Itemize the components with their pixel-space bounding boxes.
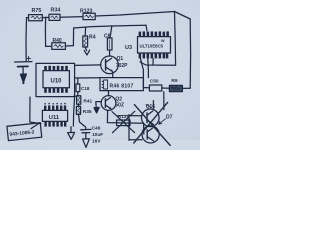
svg-text:R4: R4 — [89, 35, 96, 41]
svg-text:R46 8107: R46 8107 — [110, 83, 134, 89]
resistor R120 crossed out — [112, 111, 135, 133]
capacitor C18 — [76, 78, 90, 92]
capacitor C46 — [81, 126, 103, 145]
wire R41-R35 — [78, 104, 80, 106]
svg-text:R40: R40 — [53, 38, 62, 44]
resistor R41 — [77, 96, 93, 105]
wire corner down right of U3 (inner vertical) — [175, 12, 176, 66]
ground arrow under U11 — [70, 127, 72, 133]
wire riser up to second rail — [72, 28, 74, 46]
wire under U3 horizontal — [140, 62, 176, 65]
wire Q16 collector stub — [152, 101, 154, 109]
diode arrow at Q2 base — [94, 107, 99, 113]
wire U3 pin3 down to module — [147, 59, 150, 78]
capacitor C50 — [143, 78, 161, 91]
wire top-right outer branch — [175, 12, 191, 20]
battery B1 — [15, 56, 33, 74]
transistor Q16 (crossed out) — [142, 104, 160, 127]
svg-text:Q1: Q1 — [117, 56, 124, 62]
svg-text:R41: R41 — [83, 98, 92, 104]
svg-text:C50: C50 — [150, 78, 159, 84]
IC U10 — [43, 71, 69, 88]
svg-text:50Z: 50Z — [115, 102, 124, 108]
wire second rail drop to U3 pin1 — [146, 25, 147, 31]
U10 bottom pins — [44, 88, 68, 93]
wire R35 down to C46 — [79, 114, 86, 129]
resistor R123 — [80, 9, 95, 20]
wire from C50 row down to Q16 — [163, 92, 165, 110]
wire R75 to R34 with junction — [42, 16, 49, 18]
wire R123 rising to top-right corner — [95, 12, 174, 17]
wire Q1 emitter down to module box — [112, 72, 114, 78]
svg-text:U10: U10 — [51, 79, 63, 85]
wire R34 to R123 — [60, 16, 83, 19]
svg-text:R34: R34 — [51, 8, 61, 14]
resistor R35 — [76, 106, 92, 115]
U3 top pins — [139, 31, 169, 36]
svg-text:10uF: 10uF — [92, 132, 103, 138]
svg-text:16V: 16V — [92, 138, 101, 144]
svg-text:ULT10E8C5: ULT10E8C5 — [140, 43, 164, 48]
wire bus right of enclosure down — [73, 97, 74, 126]
wire C50 to R9 — [162, 87, 170, 89]
U11 top pin dots — [44, 103, 65, 105]
wire corner down between crossed transistors — [143, 123, 145, 134]
wire R4 down — [85, 47, 86, 51]
part number box 943-1086-2 — [7, 123, 42, 141]
wire second rail — [74, 25, 146, 28]
transistor Q2 — [101, 96, 124, 111]
wire U3 pin5 short drop — [152, 59, 154, 65]
resistor R75 — [29, 8, 43, 21]
wire outer right vertical down to R9 row — [189, 19, 191, 88]
wire Q1 base from left — [75, 64, 100, 67]
ground arrow under battery — [20, 74, 26, 83]
resistor R4 — [83, 35, 96, 47]
svg-text:R75: R75 — [32, 8, 42, 14]
wire enclosure to module box top — [75, 77, 100, 79]
svg-text:W: W — [161, 39, 165, 43]
wire R9 to outer vertical — [182, 87, 190, 89]
arrow ground under R4 — [84, 50, 89, 55]
svg-text:R35: R35 — [83, 109, 92, 115]
transistor Q1 — [101, 56, 128, 74]
U10 top pins — [44, 66, 68, 71]
resistor R40 — [52, 38, 66, 49]
U3 bottom pins — [139, 53, 169, 58]
wire tap to C8 — [110, 26, 112, 38]
U11 top pins — [44, 105, 66, 110]
wire R40 left lead — [46, 45, 52, 47]
capacitor C8 — [104, 33, 112, 50]
wire from top rail corner down to battery — [25, 18, 28, 62]
IC U3 body — [125, 37, 171, 59]
IC U11 — [42, 110, 67, 121]
svg-text:C18: C18 — [81, 86, 90, 91]
svg-text:D7: D7 — [166, 115, 173, 121]
wire C18 to R41 and bus tap — [74, 92, 78, 97]
svg-text:U3: U3 — [125, 45, 132, 51]
resistor R9 — [169, 78, 182, 92]
svg-text:R123: R123 — [80, 9, 93, 15]
wire bracket to crossed transistors — [128, 115, 130, 141]
transistor D7 pair lower (crossed out) — [142, 115, 173, 143]
module box R46 8107 — [100, 78, 143, 91]
wire left feed to U11 bottom — [30, 97, 41, 124]
svg-text:702P: 702P — [116, 63, 128, 69]
wire Q2 emitter down and right — [107, 110, 143, 123]
U11 bottom pins — [44, 121, 66, 126]
callout line to U11 — [31, 123, 40, 129]
ground arrow under C46 — [83, 139, 90, 148]
svg-text:U11: U11 — [49, 115, 60, 121]
wire tap to R4 — [84, 27, 86, 36]
wire junction drop to R40 — [44, 18, 46, 47]
enclosure box around U10 — [36, 63, 75, 96]
svg-text:C46: C46 — [92, 126, 101, 132]
paper background — [0, 0, 200, 150]
resistor R34 — [49, 8, 60, 21]
wire R40 right lead to riser — [65, 45, 73, 47]
wire C8 to Q1 collector — [109, 50, 111, 56]
wire top rail left to R75 — [27, 17, 29, 19]
wire Q2 base left with diode arrow — [96, 102, 101, 108]
svg-text:R9: R9 — [171, 78, 177, 84]
X cross over transistor pair — [134, 102, 168, 143]
wire module to Q2 — [108, 91, 110, 96]
wire U3 pin1 down to C50 row — [141, 59, 144, 88]
svg-text:C8: C8 — [104, 33, 111, 39]
